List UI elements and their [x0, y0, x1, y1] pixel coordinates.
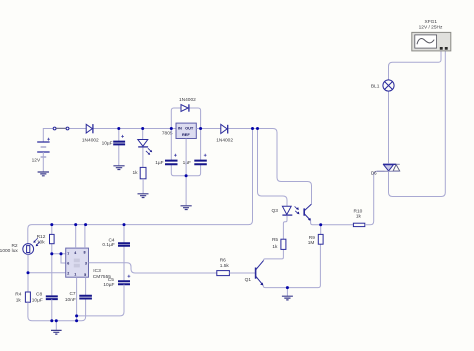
node dot C4 top	[123, 223, 126, 226]
wire main rail left from battery to regulator	[43, 129, 176, 142]
transistor Q1	[256, 260, 264, 285]
node dot rail B	[256, 127, 259, 130]
svg-text:6: 6	[67, 262, 69, 266]
svg-text:XFG1: XFG1	[425, 19, 438, 25]
svg-text:1k: 1k	[272, 244, 278, 250]
svg-text:R4: R4	[15, 291, 21, 297]
svg-text:1: 1	[74, 273, 76, 277]
resistor 1k (LED series)	[140, 167, 146, 193]
wire pin8	[84, 225, 86, 249]
svg-text:1N4002: 1N4002	[216, 138, 233, 144]
node dot LED1	[141, 127, 144, 130]
wire pin5 to C7	[85, 277, 87, 295]
svg-text:Q1: Q1	[245, 277, 252, 283]
optocoupler Q3 LED	[282, 206, 292, 239]
diode D3 1N4002 output	[221, 124, 228, 133]
svg-text:1000 lux: 1000 lux	[0, 248, 18, 254]
battery V1 12V	[37, 138, 50, 172]
node dot C1	[117, 127, 120, 130]
svg-text:1N4002: 1N4002	[82, 137, 99, 143]
svg-text:BL1: BL1	[371, 83, 380, 89]
node dot R2 bottom	[27, 271, 30, 274]
node dot R9 top	[319, 223, 322, 226]
wire Q1 emitter ground rail to R9	[263, 244, 320, 287]
svg-text:1N4002: 1N4002	[179, 97, 196, 103]
svg-text:8: 8	[84, 250, 86, 254]
triac D6	[377, 51, 446, 197]
optocoupler Q3 phototransistor	[304, 204, 311, 221]
capacitor C7 10nF	[79, 296, 92, 299]
diode D1 1N4002	[86, 124, 93, 133]
wire REF to ground	[185, 139, 187, 206]
ground 555	[51, 321, 62, 334]
svg-text:5: 5	[84, 273, 86, 277]
regulator U1 7805	[176, 123, 196, 138]
wire rail out	[196, 129, 311, 205]
opto light arrows	[295, 206, 300, 214]
wire pin7 pin6	[52, 254, 66, 263]
resistor R12 10k	[50, 225, 55, 296]
node dot pin7 branch	[60, 252, 63, 255]
svg-text:0.1µF: 0.1µF	[102, 242, 114, 248]
wire to pin2	[28, 272, 66, 274]
svg-text:12V: 12V	[32, 158, 41, 164]
node dot C8 bottom	[50, 319, 53, 322]
svg-text:10µF: 10µF	[102, 141, 113, 147]
node dot REF	[185, 174, 188, 177]
IC3 CM7555	[66, 248, 89, 277]
svg-text:1k: 1k	[16, 297, 22, 303]
svg-text:R12: R12	[37, 234, 46, 240]
svg-text:1.5k: 1.5k	[220, 263, 230, 269]
resistor R6 1.5k	[217, 271, 255, 276]
function generator XFG1	[412, 32, 451, 51]
node dot rail A	[251, 127, 254, 130]
ground battery	[38, 172, 49, 176]
svg-text:10µF: 10µF	[103, 282, 114, 288]
resistor R5 1k	[281, 239, 286, 249]
svg-text:7: 7	[67, 252, 69, 256]
capacitor C2 1uF (input)	[165, 129, 201, 176]
svg-text:R5: R5	[272, 237, 278, 243]
node dot pin1 c5	[75, 314, 78, 317]
node dot gnd stem	[55, 319, 58, 322]
svg-text:R6: R6	[220, 257, 226, 263]
svg-text:1µF: 1µF	[155, 160, 163, 166]
node dot regulator out	[199, 127, 202, 130]
capacitor C1 10uF	[113, 129, 125, 166]
capacitor C3 1uF (output)	[194, 154, 207, 164]
switch S1	[53, 127, 69, 130]
svg-text:OUT: OUT	[185, 126, 194, 131]
ground Q1	[282, 288, 293, 300]
node dot regulator in	[170, 127, 173, 130]
ground regulator	[181, 206, 192, 210]
wire emitter to R10	[311, 220, 354, 225]
svg-text:3: 3	[85, 262, 87, 266]
svg-text:D6: D6	[371, 171, 377, 176]
wire bypass diode loop	[171, 108, 200, 129]
svg-text:Q3: Q3	[271, 208, 278, 214]
svg-text:C8: C8	[36, 292, 42, 298]
ground C1	[113, 166, 124, 170]
resistor R9 1M	[318, 225, 323, 244]
svg-text:IC3: IC3	[93, 268, 101, 274]
node dot pin4 top	[74, 223, 77, 226]
node dot pin1 gnd	[75, 319, 78, 322]
ground LED1	[138, 194, 149, 198]
svg-text:2: 2	[67, 271, 69, 275]
svg-text:10nF: 10nF	[65, 297, 76, 303]
svg-text:10k: 10k	[37, 240, 45, 246]
wire pin3 to R6	[89, 263, 217, 273]
svg-text:1k: 1k	[133, 170, 139, 176]
wire Q1 collector to R5	[264, 249, 284, 260]
photoresistor R2 1000lux	[23, 238, 40, 273]
node dot pin7 wire	[50, 252, 53, 255]
capacitor C4 0.1uF	[118, 225, 130, 281]
lamp BL1	[383, 51, 441, 164]
svg-text:REF: REF	[182, 132, 190, 137]
wire down to 555 vcc rail	[28, 129, 253, 244]
svg-text:10µF: 10µF	[32, 297, 43, 303]
node dot Q1 ground	[286, 286, 289, 289]
svg-text:12V / 25Hz: 12V / 25Hz	[419, 25, 443, 31]
node dot R12 top	[50, 223, 53, 226]
wire pin4	[75, 225, 77, 249]
capacitor C5 10uF	[77, 275, 131, 316]
node dot pin8 top	[84, 223, 87, 226]
wire down to opto LED	[258, 129, 288, 207]
svg-text:R2: R2	[11, 243, 17, 249]
resistor R4 1k	[25, 273, 85, 321]
svg-text:IN: IN	[178, 126, 182, 131]
diode D2 1N4002 bypass	[181, 104, 189, 111]
svg-text:C7: C7	[69, 291, 75, 297]
LED1	[138, 129, 152, 168]
svg-text:1M: 1M	[308, 240, 315, 246]
svg-text:1k: 1k	[356, 214, 362, 220]
svg-text:1µF: 1µF	[183, 160, 191, 166]
capacitor C8 10uF	[46, 296, 58, 320]
resistor R10 1k	[353, 171, 384, 226]
wire pin1 to ground rail	[76, 277, 78, 321]
